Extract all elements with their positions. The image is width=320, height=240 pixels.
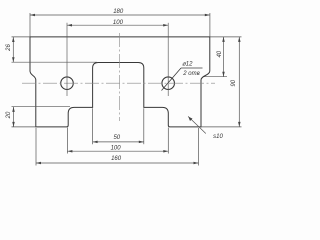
centerline hole right vertical bbox=[167, 23, 169, 96]
part outline bbox=[30, 37, 210, 127]
hole right bbox=[162, 77, 175, 90]
svg-text:50: 50 bbox=[113, 135, 120, 141]
dim 90 bbox=[201, 37, 242, 127]
svg-text:180: 180 bbox=[113, 9, 124, 15]
svg-text:2 отв: 2 отв bbox=[182, 71, 199, 77]
svg-text:s10: s10 bbox=[213, 134, 223, 140]
dim 40 bbox=[204, 37, 242, 77]
leader s10 bbox=[188, 116, 206, 133]
svg-text:160: 160 bbox=[111, 156, 122, 162]
dim 180 line bbox=[30, 13, 210, 37]
centerline horizontal bbox=[22, 82, 215, 84]
svg-text:100: 100 bbox=[111, 146, 122, 152]
svg-text:26: 26 bbox=[6, 44, 12, 52]
dim 20 bbox=[12, 107, 71, 127]
svg-text:20: 20 bbox=[6, 111, 12, 119]
svg-text:90: 90 bbox=[231, 79, 237, 86]
dim 160 bottom bbox=[36, 128, 199, 166]
dim 26 bbox=[12, 37, 98, 62]
dim 50 bottom bbox=[93, 108, 144, 144]
dim 100 top line bbox=[67, 24, 168, 27]
centerline hole left vertical bbox=[66, 23, 68, 96]
hole left bbox=[61, 77, 74, 90]
centerline middle vertical bbox=[119, 33, 121, 121]
svg-text:100: 100 bbox=[113, 20, 124, 26]
dim 100 bottom bbox=[67, 128, 168, 154]
leader dia12 bbox=[162, 68, 203, 91]
svg-text:40: 40 bbox=[217, 50, 223, 57]
svg-text:⌀12: ⌀12 bbox=[182, 61, 193, 67]
